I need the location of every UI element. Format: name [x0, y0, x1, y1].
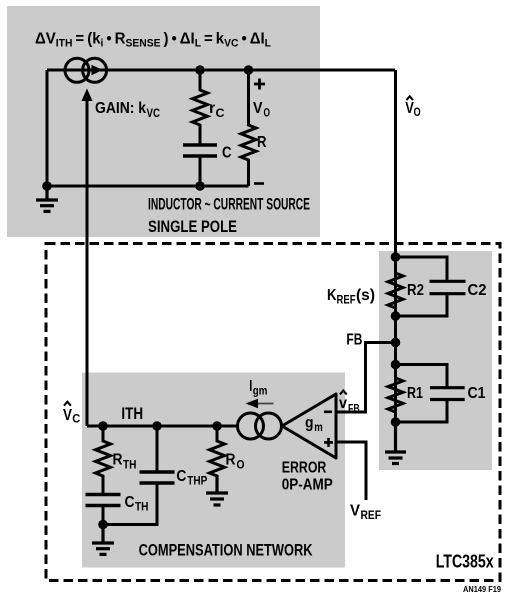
svg-text:O: O — [237, 459, 245, 471]
svg-text:C: C — [125, 494, 135, 511]
wire: control wire from Vc node — [86, 99, 89, 426]
wire: ITH rail — [87, 425, 238, 428]
svg-text:C2: C2 — [468, 282, 487, 299]
svg-text:ERROR: ERROR — [282, 459, 327, 476]
svg-text:gm: gm — [253, 386, 267, 398]
svg-text:I: I — [249, 378, 252, 395]
svg-text:SINGLE POLE: SINGLE POLE — [148, 218, 237, 236]
svg-text:C: C — [216, 108, 225, 120]
svg-text:R2: R2 — [407, 282, 424, 299]
capacitor C1 — [396, 365, 465, 423]
node: R2 bottom — [391, 311, 401, 321]
wire: bottom rail — [47, 185, 249, 188]
svg-text:C1: C1 — [468, 385, 486, 402]
svg-text:COMPENSATION NETWORK: COMPENSATION NETWORK — [139, 541, 313, 559]
svg-text:V: V — [63, 407, 72, 424]
current source symbol (kvc controlled) — [65, 58, 107, 82]
node: rC bottom junction — [195, 181, 205, 191]
svg-text:C: C — [176, 468, 186, 485]
svg-text:LTC385x: LTC385x — [436, 552, 494, 572]
svg-text:ITH: ITH — [121, 405, 143, 423]
ground: output model ground — [36, 186, 58, 211]
node: R1 top — [391, 360, 401, 370]
svg-text:K: K — [327, 287, 337, 304]
svg-text:C: C — [222, 145, 232, 162]
arrow: Igm direction — [257, 403, 274, 405]
wire: top rail — [47, 69, 395, 72]
svg-text:R: R — [113, 452, 123, 469]
ground: compensation ground — [92, 525, 114, 555]
svg-text:FB: FB — [348, 403, 360, 415]
current source gm output — [238, 413, 282, 439]
shaded box: inductor current source model — [7, 6, 320, 237]
svg-text:R1: R1 — [407, 385, 423, 402]
node: R1 bottom — [391, 417, 401, 427]
svg-text:THP: THP — [187, 476, 207, 488]
pin: noninverting input plus — [324, 438, 333, 447]
node: RTH top junction — [98, 421, 108, 431]
wire: left vertical — [46, 70, 49, 186]
wire: FB to inverting input — [336, 343, 396, 413]
node: ground junction dot — [42, 181, 52, 191]
svg-text:R: R — [257, 134, 267, 151]
svg-text:INDUCTOR ~ CURRENT SOURCE: INDUCTOR ~ CURRENT SOURCE — [148, 196, 310, 214]
label plus Vo — [254, 79, 265, 90]
capacitor CTH — [86, 495, 121, 525]
node: FB junction — [391, 338, 401, 348]
svg-text:VC: VC — [147, 108, 161, 120]
svg-text:O: O — [264, 108, 271, 120]
label minus — [254, 182, 264, 185]
svg-text:v: v — [339, 395, 347, 412]
resistor R2 — [388, 257, 403, 316]
node: rC top junction — [195, 65, 205, 75]
dashed box: LTC385x boundary — [46, 244, 500, 581]
capacitor C — [183, 145, 217, 186]
wire: Vo sense line down right side — [394, 70, 397, 450]
node: RO top junction — [212, 421, 222, 431]
svg-text:O: O — [414, 107, 421, 119]
node: CTH bottom junction — [98, 520, 108, 530]
node: R2 top — [391, 252, 401, 262]
svg-text:GAIN: k: GAIN: k — [95, 100, 146, 117]
capacitor C2 — [396, 257, 466, 316]
svg-text:TH: TH — [135, 502, 149, 514]
svg-text:m: m — [314, 422, 323, 434]
wire: VREF to noninverting input — [336, 442, 366, 500]
svg-text:V: V — [350, 503, 360, 520]
svg-text:0P-AMP: 0P-AMP — [282, 476, 333, 493]
svg-text:C: C — [72, 414, 80, 426]
svg-text:r: r — [209, 100, 215, 117]
node: R top junction — [244, 65, 254, 75]
resistor R — [241, 70, 256, 186]
resistor rC — [193, 70, 208, 144]
svg-text:TH: TH — [123, 459, 137, 471]
pin: inverting input minus — [324, 410, 332, 413]
svg-text:FB: FB — [346, 332, 362, 349]
svg-text:R: R — [226, 452, 236, 469]
svg-text:V: V — [253, 100, 263, 117]
svg-text:g: g — [305, 415, 314, 432]
resistor RO — [210, 426, 225, 491]
svg-text:(s): (s) — [356, 287, 375, 304]
control arrow into current source — [82, 89, 93, 102]
ground: RO ground — [206, 475, 228, 505]
capacitor CTHP — [103, 426, 175, 525]
shaded box: compensation network — [82, 373, 345, 568]
resistor RTH — [96, 426, 111, 493]
op-amp: error amplifier — [282, 394, 336, 458]
node: CTHP top junction — [152, 421, 162, 431]
shaded box: feedback divider — [379, 251, 492, 470]
svg-text:AN149 F19: AN149 F19 — [463, 584, 501, 594]
ground: divider ground — [385, 422, 406, 464]
svg-text:REF: REF — [361, 510, 382, 522]
svg-text:REF: REF — [337, 295, 356, 307]
resistor R1 — [388, 365, 403, 423]
